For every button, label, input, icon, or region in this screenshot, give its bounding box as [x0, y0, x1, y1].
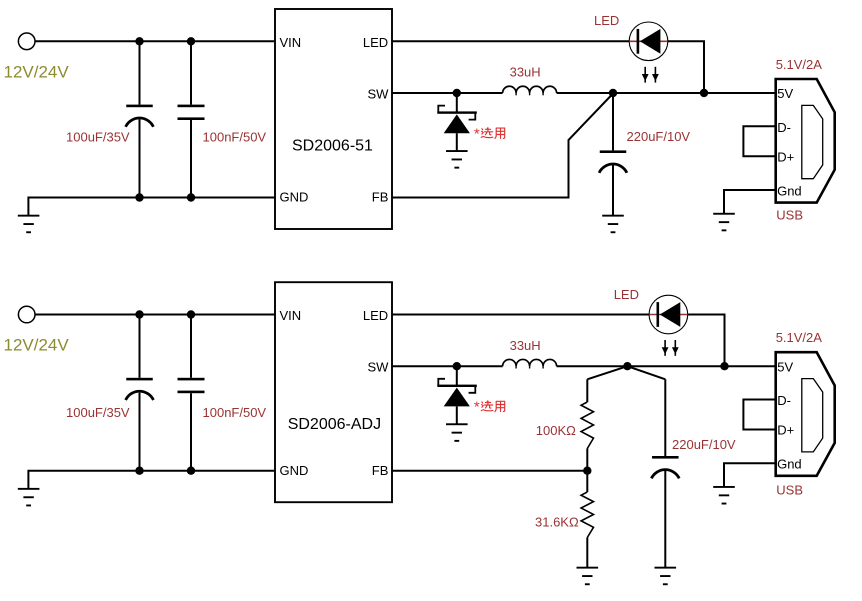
svg-text:D-: D- — [777, 393, 791, 408]
svg-text:100nF/50V: 100nF/50V — [203, 130, 267, 145]
svg-text:SW: SW — [367, 360, 389, 375]
ground — [713, 486, 735, 505]
wire GND rail — [28, 198, 275, 216]
wire LED to 5V node — [688, 315, 725, 367]
input terminal J2 — [18, 306, 35, 323]
svg-text:5V: 5V — [777, 86, 793, 101]
wire FB to divider — [392, 470, 587, 472]
wire SW pin to inductor — [392, 365, 503, 367]
svg-text:VIN: VIN — [280, 308, 302, 323]
node input/C-top junctions — [135, 310, 143, 318]
ground — [18, 488, 40, 507]
regulator U2 SD2006-ADJ — [275, 282, 392, 502]
regulator U1 SD2006-51 — [275, 9, 392, 229]
svg-text:USB: USB — [776, 482, 803, 497]
LED indicator D1a — [629, 22, 668, 61]
svg-text:5V: 5V — [777, 359, 793, 374]
svg-text:GND: GND — [280, 190, 309, 205]
wire inductor to USB 5V — [557, 365, 776, 367]
capacitor C 100uF/35V — [126, 315, 154, 471]
wire VIN rail — [35, 314, 275, 316]
LED indicator D2a — [649, 295, 688, 334]
svg-text:LED: LED — [363, 35, 388, 50]
input terminal J1 — [18, 33, 35, 50]
wire LED pin to LED — [392, 40, 629, 42]
wire USB Gnd — [724, 190, 776, 214]
USB connector CON2 — [776, 352, 835, 476]
capacitor C3 220uF/10V — [599, 93, 627, 215]
svg-text:USB: USB — [776, 207, 803, 222]
node GND rail junctions — [135, 193, 143, 201]
svg-text:SD2006-ADJ: SD2006-ADJ — [288, 416, 381, 433]
svg-text:33uH: 33uH — [510, 65, 541, 80]
wire VIN rail — [35, 40, 275, 42]
wire GND rail — [28, 471, 275, 489]
svg-text:D-: D- — [777, 120, 791, 135]
wire D-/D+ loop — [743, 126, 775, 156]
capacitor C 100uF/35V — [126, 41, 154, 197]
LED emission arrows — [662, 340, 679, 356]
node SW/diode junction — [453, 89, 461, 97]
wire SW pin to inductor — [392, 92, 503, 94]
wire USB Gnd — [724, 463, 776, 487]
svg-text:100nF/50V: 100nF/50V — [203, 405, 267, 420]
svg-text:LED: LED — [594, 13, 619, 28]
wire FB feedback path — [392, 94, 613, 198]
node SW/diode junction — [453, 362, 461, 370]
ground — [18, 215, 40, 234]
ground — [713, 213, 735, 231]
node feedback/cap junction — [623, 362, 631, 370]
inductor L1 33uH — [503, 86, 557, 93]
node GND rail junctions — [135, 467, 143, 475]
wire LED to 5V node — [668, 41, 704, 93]
node output cap junction — [609, 89, 617, 97]
node FB divider junction — [583, 467, 591, 475]
node input/C-top junctions — [135, 37, 143, 45]
svg-text:SD2006-51: SD2006-51 — [292, 138, 373, 155]
wire inductor to USB 5V — [557, 92, 776, 94]
wire D-/D+ loop — [743, 400, 775, 430]
node LED/5V junction — [720, 362, 728, 370]
svg-text:D+: D+ — [777, 149, 794, 164]
svg-text:Gnd: Gnd — [777, 183, 802, 198]
resistor R1 100K — [586, 379, 588, 402]
wire LED pin to LED — [392, 314, 649, 316]
capacitor C 100nF/50V — [178, 315, 205, 471]
capacitor C4 220uF/10V — [651, 379, 679, 567]
svg-text:D+: D+ — [777, 423, 794, 438]
LED emission arrows — [642, 67, 659, 83]
wire junction diagonals — [587, 366, 627, 379]
svg-text:SW: SW — [367, 86, 389, 101]
svg-text:VIN: VIN — [280, 35, 302, 50]
resistor R2 31.6K — [586, 471, 588, 492]
svg-text:31.6KΩ: 31.6KΩ — [535, 514, 579, 529]
svg-text:220uF/10V: 220uF/10V — [672, 437, 736, 452]
ground — [577, 567, 599, 586]
svg-text:100uF/35V: 100uF/35V — [66, 405, 130, 420]
svg-text:100uF/35V: 100uF/35V — [66, 130, 130, 145]
svg-text:12V/24V: 12V/24V — [4, 62, 70, 81]
svg-text:100KΩ: 100KΩ — [536, 423, 576, 438]
USB connector CON1 — [776, 79, 835, 203]
svg-text:*: * — [474, 125, 480, 142]
svg-text:*: * — [474, 399, 480, 416]
svg-text:12V/24V: 12V/24V — [4, 336, 70, 355]
svg-text:5.1V/2A: 5.1V/2A — [776, 57, 823, 72]
node LED/5V junction — [700, 89, 708, 97]
ground — [446, 423, 468, 442]
svg-text:33uH: 33uH — [510, 338, 541, 353]
inductor L2 33uH — [503, 359, 557, 366]
capacitor C 100nF/50V — [178, 41, 205, 197]
diode D1 schottky (optional) — [437, 93, 477, 151]
svg-text:220uF/10V: 220uF/10V — [627, 129, 691, 144]
svg-text:GND: GND — [280, 463, 309, 478]
ground — [446, 150, 468, 168]
svg-text:Gnd: Gnd — [777, 457, 802, 472]
svg-text:LED: LED — [614, 287, 639, 302]
ground — [655, 567, 677, 586]
svg-text:5.1V/2A: 5.1V/2A — [776, 330, 823, 345]
svg-text:LED: LED — [363, 308, 388, 323]
svg-text:FB: FB — [372, 463, 389, 478]
diode D2 schottky (optional) — [437, 366, 477, 424]
svg-text:FB: FB — [372, 190, 389, 205]
ground — [602, 215, 624, 234]
